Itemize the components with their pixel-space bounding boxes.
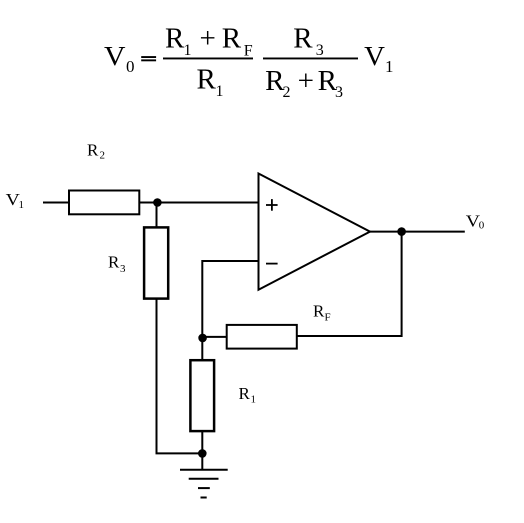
svg-text:3: 3 xyxy=(120,263,126,275)
op-amp U1 xyxy=(259,174,371,290)
svg-text:F: F xyxy=(325,311,331,323)
svg-text:+: + xyxy=(200,23,216,55)
wire RF left to node C xyxy=(202,336,226,338)
svg-text:R: R xyxy=(108,253,120,272)
node C (feedback junction) xyxy=(198,334,207,343)
label V1 (input) xyxy=(6,190,24,211)
ground xyxy=(180,470,228,498)
wire input V1 to R2 xyxy=(43,202,69,204)
formula fraction bar R3/(R2+R3) xyxy=(263,58,358,60)
svg-text:V: V xyxy=(104,41,126,71)
svg-text:R: R xyxy=(313,301,325,320)
svg-text:1: 1 xyxy=(184,42,192,59)
label V0 (output) xyxy=(466,211,485,231)
svg-text:+: + xyxy=(298,65,314,97)
svg-text:2: 2 xyxy=(283,84,291,101)
resistor R1 xyxy=(190,360,214,431)
svg-text:R: R xyxy=(165,23,185,55)
label RF xyxy=(313,301,331,323)
wire node A down to R3 xyxy=(156,203,158,229)
resistor RF xyxy=(227,325,297,349)
svg-text:0: 0 xyxy=(126,57,135,76)
svg-text:3: 3 xyxy=(316,42,324,59)
svg-text:3: 3 xyxy=(335,84,343,101)
wire node C down to R1 xyxy=(201,338,203,361)
formula fraction bar (R1+RF)/R1 xyxy=(163,58,253,60)
formula V1 xyxy=(364,41,393,76)
resistor R2 xyxy=(69,191,139,215)
wire feedback from output node down and left to RF xyxy=(297,232,402,336)
svg-text:1: 1 xyxy=(216,83,224,100)
label R3 xyxy=(108,253,126,275)
wire R1 bottom to ground xyxy=(201,431,203,470)
formula denominator R2 + R3 xyxy=(265,65,343,101)
node D (ground junction) xyxy=(198,449,207,458)
svg-text:F: F xyxy=(244,42,253,59)
formula numerator R3 xyxy=(293,23,323,60)
wire op-amp minus input to feedback node xyxy=(202,261,258,338)
svg-text:1: 1 xyxy=(19,199,25,211)
op-amp minus sign xyxy=(266,263,278,265)
resistor R3 xyxy=(144,227,168,298)
op-amp plus sign xyxy=(266,199,278,211)
svg-text:1: 1 xyxy=(385,57,394,76)
svg-text:0: 0 xyxy=(479,220,485,232)
svg-text:R: R xyxy=(293,23,313,55)
formula V0 = xyxy=(104,41,156,76)
wire R2 to op-amp + input xyxy=(139,202,259,204)
svg-text:R: R xyxy=(87,141,99,160)
label R1 xyxy=(239,384,257,406)
formula denominator R1 xyxy=(197,63,224,100)
svg-text:V: V xyxy=(364,41,385,71)
svg-text:R: R xyxy=(222,23,242,55)
wire op-amp output xyxy=(370,231,465,233)
svg-text:1: 1 xyxy=(251,394,257,406)
svg-text:R: R xyxy=(239,384,251,403)
node A (junction R2/R3) xyxy=(153,198,162,207)
wire R3 bottom down and right to ground node xyxy=(157,299,203,454)
svg-text:R: R xyxy=(197,63,217,95)
node B (output junction) xyxy=(397,227,406,236)
formula numerator R1 + RF xyxy=(165,23,253,60)
svg-text:2: 2 xyxy=(100,150,106,162)
label R2 xyxy=(87,141,105,162)
